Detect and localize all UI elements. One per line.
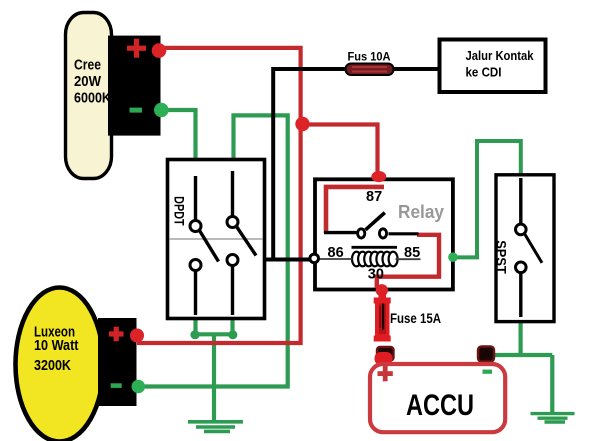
minus sign of ACCU <box>483 370 493 374</box>
terminal node pin 30 bottom <box>376 284 388 296</box>
wire: black from relay pin 86 up and to fuse 10A / CDI <box>273 69 440 262</box>
wire: green down from bus to ground <box>212 334 216 421</box>
SPST top lead <box>519 178 522 224</box>
ground symbol under DPDT <box>188 422 243 432</box>
relay box U1 <box>315 179 453 289</box>
box: Jalur Kontak ke CDI <box>440 40 546 93</box>
svg-text:Relay: Relay <box>398 202 444 222</box>
SPST top contact <box>516 224 527 235</box>
fuse F2 Fuse 15A body <box>374 292 393 365</box>
DPDT pole 2 blade <box>237 227 257 256</box>
relay coil winding <box>352 252 398 267</box>
wire: green from Cree minus to DPDT pole 1 <box>162 110 196 160</box>
terminal node pin 86 left <box>310 254 319 263</box>
wire: green DPDT bottom stub right <box>230 320 234 334</box>
svg-text:30: 30 <box>368 266 384 282</box>
wire: green down to right ground <box>550 355 554 414</box>
svg-text:DPDT: DPDT <box>172 196 187 226</box>
DPDT pole 1 top lead <box>194 176 197 221</box>
wire: green from relay pin 85 to SPST top <box>453 141 521 257</box>
DPDT pole 2 top lead <box>231 171 234 217</box>
relay switch blade <box>366 213 385 230</box>
wire: green from SPST bottom down <box>518 323 522 355</box>
connector block of Luxeon lamp <box>98 318 137 406</box>
lamp: Luxeon ellipse body <box>16 288 104 441</box>
battery ACCU box <box>370 364 505 432</box>
terminal node red Cree plus <box>152 43 167 58</box>
relay contact left lead <box>324 231 357 234</box>
relay contact right terminal <box>379 229 386 238</box>
battery terminal negative post <box>478 347 494 362</box>
svg-text:87: 87 <box>366 189 382 205</box>
wire: green bus joining DPDT bottom stubs <box>193 332 235 336</box>
DPDT pole 2 contact <box>227 217 238 228</box>
minus sign of Luxeon <box>111 383 122 388</box>
DPDT pole 1 contact <box>190 221 201 232</box>
SPST bottom lead <box>519 273 522 317</box>
switch box SPST <box>496 175 554 322</box>
terminal node red Luxeon plus <box>130 329 144 343</box>
wire: green from Luxeon minus up to DPDT pole 2 <box>140 115 288 386</box>
plus sign of Cree <box>127 39 146 58</box>
svg-text:Jalur Kontak: Jalur Kontak <box>466 48 535 63</box>
battery terminal positive post <box>377 347 394 361</box>
plus sign of Luxeon <box>109 327 124 342</box>
wire: green DPDT bottom stub left <box>193 320 197 334</box>
relay contact right lead <box>389 232 419 235</box>
wire: coil lead to pin 86 <box>317 258 353 260</box>
svg-text:3200K: 3200K <box>34 358 71 374</box>
connector block of Cree lamp <box>108 36 161 136</box>
wire: red inside relay from contact to pin 30 <box>377 235 439 288</box>
svg-text:SPST: SPST <box>494 240 509 274</box>
DPDT throw 1 contact <box>190 260 201 271</box>
DPDT throw 2 contact <box>227 255 238 266</box>
svg-text:86: 86 <box>328 245 344 261</box>
terminal node pin 87 top <box>371 171 386 182</box>
terminal node pin 85 right <box>448 252 458 262</box>
wire: coil lead to pin 85 <box>396 258 421 260</box>
plus sign of ACCU <box>378 366 393 381</box>
svg-text:ke CDI: ke CDI <box>466 64 502 79</box>
relay coil core lines <box>352 246 398 249</box>
svg-text:Fuse 15A: Fuse 15A <box>390 310 441 326</box>
svg-text:Cree: Cree <box>74 58 101 74</box>
svg-text:20W: 20W <box>74 74 101 90</box>
svg-text:6000K: 6000K <box>74 91 111 107</box>
switch box DPDT <box>168 160 265 319</box>
svg-text:Fus 10A: Fus 10A <box>348 50 391 64</box>
wire: red branch to relay pin 87 <box>302 125 378 177</box>
SPST blade <box>525 234 542 263</box>
DPDT throw 1 bottom lead <box>194 271 197 316</box>
SPST bottom contact <box>516 262 527 273</box>
svg-text:10 Watt: 10 Watt <box>34 338 79 354</box>
junction cap right on green bus <box>228 330 237 339</box>
fuse F1 Fus 10A <box>346 64 394 76</box>
terminal node green Cree minus <box>154 103 169 118</box>
DPDT pole 1 blade <box>200 231 219 262</box>
junction node red bus <box>295 117 309 131</box>
terminal node green Luxeon minus <box>132 380 146 394</box>
wire: red inside relay from pin 87 to contact <box>326 187 384 233</box>
wire: black from DPDT common to relay pin 86 <box>264 258 313 262</box>
ground symbol right <box>531 414 575 422</box>
DPDT throw 2 bottom lead <box>231 266 234 316</box>
wire: green horizontal battery minus bus <box>491 353 552 357</box>
lamp: Cree capsule body <box>66 13 112 179</box>
divider line inside DPDT <box>169 238 263 240</box>
relay contact left terminal <box>358 229 365 238</box>
svg-text:ACCU: ACCU <box>406 389 474 422</box>
svg-text:85: 85 <box>404 245 420 261</box>
minus sign of Cree <box>130 108 143 113</box>
junction cap left on green bus <box>190 330 199 339</box>
wire: red bus from Cree plus down to Luxeon plus <box>137 48 301 343</box>
